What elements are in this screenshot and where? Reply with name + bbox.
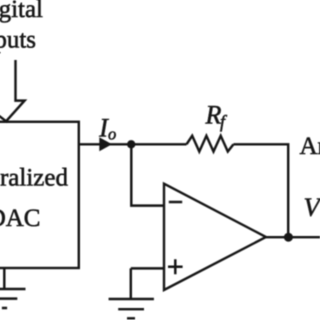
svg-text:Generalized: Generalized bbox=[0, 165, 68, 192]
svg-text:Digital: Digital bbox=[0, 0, 43, 23]
DAC box U1 bbox=[0, 122, 79, 268]
svg-text:f: f bbox=[220, 112, 228, 132]
current arrowhead Io bbox=[99, 137, 112, 151]
wire Io (DAC output to node) bbox=[79, 143, 187, 145]
wire feedback (Rf to output node) bbox=[234, 144, 289, 237]
svg-text:o: o bbox=[108, 124, 116, 143]
op-amp plus pin bbox=[168, 259, 183, 274]
wire non-inverting input bbox=[131, 268, 164, 299]
svg-text:DAC: DAC bbox=[0, 205, 41, 232]
wire inverting input bbox=[131, 144, 164, 205]
node dot (Io / Rf / inverting input) bbox=[127, 140, 135, 148]
svg-text:Analog: Analog bbox=[300, 133, 320, 160]
ground (op-amp + input) bbox=[109, 299, 154, 318]
node dot (output) bbox=[284, 233, 293, 242]
op-amp minus pin bbox=[169, 201, 182, 204]
svg-text:inputs: inputs bbox=[0, 27, 36, 54]
wire output Vo bbox=[266, 236, 320, 238]
svg-text:R: R bbox=[205, 101, 222, 130]
ground (under DAC box) bbox=[0, 268, 26, 308]
svg-text:V: V bbox=[304, 192, 320, 222]
digital inputs arrow bbox=[0, 60, 25, 122]
op-amp U2 triangle bbox=[164, 184, 266, 290]
resistor Rf bbox=[187, 136, 234, 152]
